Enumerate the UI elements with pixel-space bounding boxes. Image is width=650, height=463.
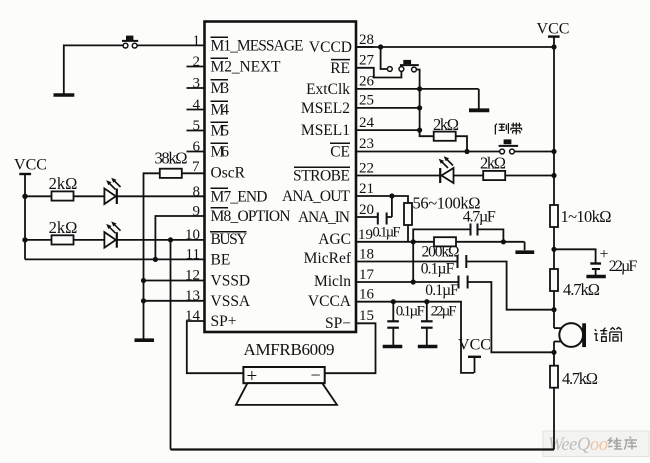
svg-text:2kΩ: 2kΩ (480, 154, 506, 173)
svg-text:SP−: SP− (325, 315, 351, 332)
pin label M8_OPTION (211, 208, 291, 225)
svg-text:23: 23 (359, 136, 374, 152)
svg-text:18: 18 (359, 247, 374, 263)
pin 7 number (192, 159, 200, 175)
svg-text:STROBE: STROBE (293, 168, 350, 185)
svg-text:VSSA: VSSA (211, 293, 251, 310)
pin label VSSD (211, 273, 251, 290)
node dot VSSD (141, 278, 146, 283)
node dot BUSY/down (168, 237, 173, 242)
wire row pin13 VSSA (144, 300, 205, 302)
node dot ANA_OUT/cap branch (389, 193, 394, 198)
svg-text:AGC: AGC (318, 231, 351, 248)
pin 8 number (193, 184, 201, 200)
wire pin26 ExtClk row (356, 88, 479, 90)
wire R9 down to mic top (553, 291, 555, 328)
svg-text:BE: BE (211, 252, 231, 269)
pin label M1_MESSAGE with overline on M1 (211, 37, 304, 54)
ground G1 (top-left) (54, 93, 75, 97)
wire row pin8 (M7_END) (25, 195, 205, 197)
resistor R6 56~100k vertical (404, 203, 412, 225)
wire R8 down to node (553, 227, 555, 269)
svg-text:0.1µF: 0.1µF (421, 261, 455, 278)
svg-text:27: 27 (359, 53, 375, 69)
svg-text:8: 8 (193, 184, 201, 200)
svg-text:VCC: VCC (537, 21, 570, 38)
node dot Micln/AGC (411, 279, 416, 284)
pin label M4 (211, 101, 230, 118)
wire pin20 ANA_IN to cap (356, 216, 378, 218)
pin label STROBE overlined (293, 167, 350, 184)
pin 22 number (359, 161, 374, 177)
node dot VCCA/C6 (424, 299, 429, 304)
pin label Micln (314, 273, 351, 290)
svg-text:19: 19 (358, 227, 373, 243)
pin 2 stub+number (187, 54, 205, 70)
wire vertical 38k left down to ground (144, 173, 160, 338)
pin label MSEL2 (301, 100, 350, 117)
svg-text:VCC: VCC (14, 157, 47, 174)
wire CE to VCC column (515, 151, 555, 153)
svg-text:−: − (311, 365, 321, 385)
resistor R8 1~10k vertical (VCC column) (550, 205, 558, 227)
svg-text:28: 28 (359, 32, 374, 48)
pin 26 number (359, 74, 375, 90)
pin 24 number (359, 115, 375, 131)
wire R10 down to bottom rail (553, 388, 555, 450)
svg-text:17: 17 (359, 267, 375, 283)
node dot VCCA/C5 (391, 299, 396, 304)
push button S2 (RE) (387, 60, 418, 72)
svg-text:1~10kΩ: 1~10kΩ (561, 207, 612, 226)
svg-text:22µF: 22µF (609, 258, 638, 275)
svg-text:4.7µF: 4.7µF (463, 209, 496, 226)
svg-text:1: 1 (193, 33, 201, 49)
pin 4 stub+number (187, 97, 205, 113)
wire pin17 Micln row (356, 281, 459, 283)
svg-text:15: 15 (359, 308, 374, 324)
wire pin25 MSEL2 row (356, 107, 420, 109)
ground G2 (bottom-left) (135, 338, 155, 342)
pin 16 number (359, 287, 375, 303)
pin 10 number (185, 227, 200, 243)
pin label BUSY overlined (210, 231, 248, 248)
svg-text:22: 22 (359, 161, 374, 177)
capacitor C7 22uF polarized to ground (586, 246, 608, 277)
svg-text:VCCA: VCCA (308, 293, 352, 310)
pin label M5 (211, 122, 230, 139)
node dot VSSA (141, 298, 146, 303)
svg-text:16: 16 (359, 287, 375, 303)
pin 1 stub+number (193, 33, 201, 49)
svg-text:BUSY: BUSY (211, 231, 248, 248)
wire button C down to ExtClk/MSEL column (416, 70, 433, 137)
node dot pin9/BE (153, 257, 158, 262)
pin label MSEL1 (301, 122, 350, 139)
wire AGC right to ground (524, 242, 526, 250)
pin label SP- (325, 315, 351, 332)
svg-text:25: 25 (359, 93, 374, 109)
svg-text:M1_MESSAGE: M1_MESSAGE (211, 38, 304, 55)
svg-text:ExtClk: ExtClk (306, 81, 350, 98)
svg-text:22µF: 22µF (431, 304, 457, 320)
resistor R3 38k (OscR) (160, 169, 182, 178)
resistor R10 4.7k (below mic) (550, 366, 558, 388)
svg-text:MSEL2: MSEL2 (301, 100, 350, 117)
svg-text:2: 2 (193, 54, 201, 70)
pin 15 number (359, 308, 374, 324)
wire LED to R5 (454, 175, 483, 177)
wire R4 right down to CE (456, 136, 467, 151)
wire pin27 RE step to button contact B (356, 68, 401, 78)
svg-text:200kΩ: 200kΩ (422, 244, 460, 261)
svg-text:2kΩ: 2kΩ (49, 218, 78, 237)
svg-text:0.1µF: 0.1µF (396, 304, 425, 320)
svg-text:VCC: VCC (458, 337, 491, 354)
svg-text:VSSD: VSSD (211, 273, 251, 290)
ground G4 (AGC) (515, 250, 534, 254)
pin label RE overlined (330, 60, 350, 77)
node dot AGC right (501, 239, 506, 244)
svg-text:24: 24 (359, 115, 375, 131)
pin 17 number (359, 267, 375, 283)
wire AGC down to Micln (412, 242, 414, 282)
node dot VCC/row8 (22, 194, 27, 199)
svg-text:SP+: SP+ (211, 313, 237, 330)
wire pin24 MSEL1 row (356, 129, 420, 131)
pin 5 stub+number (187, 118, 205, 134)
wire OscR to resistor (182, 172, 205, 174)
pin 11 number (186, 247, 200, 263)
node dot CE/VCC column (551, 149, 556, 154)
resistor R7 200k (AGC) (434, 237, 456, 246)
speaker LS1 (236, 365, 337, 405)
resistor R9 4.7k (above mic) (550, 269, 558, 291)
node dot Micln tap (551, 350, 556, 355)
wire C3 right to mic node (466, 262, 554, 310)
node dot AGC left (411, 239, 416, 244)
pin 9 number (193, 204, 201, 220)
node dot CE/R4 (464, 149, 469, 154)
capacitor C1 0.1uF (ANA_IN) (378, 196, 392, 225)
wire pin9 (M8_OPTION) down to BE (155, 216, 204, 259)
capacitor C2 4.7uF branch over R7 (413, 224, 503, 242)
pin 14 number (185, 308, 201, 324)
node dot pin28/VCC (551, 44, 556, 49)
wire SP- to speaker (325, 323, 376, 373)
pin label VSSA (211, 293, 251, 310)
LED D3 (STROBE) (439, 156, 454, 183)
push button S3 (rewind) (499, 139, 518, 154)
wire pin28 VCCD to VCC (356, 46, 554, 48)
push button S1 on pin1 wire (122, 36, 138, 48)
capacitor C6 22uF to ground (418, 302, 438, 347)
pin label CE overlined (330, 143, 350, 160)
svg-text:0.1µF: 0.1µF (373, 225, 401, 241)
svg-text:6: 6 (193, 139, 201, 155)
pin label M7_END (211, 188, 268, 205)
pin label BE (211, 252, 231, 269)
pin label M2_NEXT (211, 58, 282, 75)
svg-text:4: 4 (193, 97, 201, 113)
pin label AGC (318, 231, 351, 248)
svg-text:WeeQoo: WeeQoo (548, 435, 608, 455)
capacitor C4 0.1uF (Micln) (459, 276, 468, 289)
wire pin1 to button and ground (137, 44, 204, 46)
svg-text:Micln: Micln (314, 273, 351, 290)
svg-text:5: 5 (193, 118, 201, 134)
pin label SP+ (211, 313, 237, 330)
pin label ANA_OUT (282, 188, 351, 205)
pin 19 number (358, 227, 373, 243)
svg-text:26: 26 (359, 74, 375, 90)
wire mic bottom stub (553, 342, 555, 366)
wire pin23 CE row (356, 151, 500, 153)
pin 28 number (356, 32, 374, 48)
node dot MicRef tap (551, 307, 556, 312)
VCC symbol (VCCA) (458, 337, 491, 373)
pin 18 number (359, 247, 374, 263)
pin label ANA_IN (298, 209, 350, 226)
svg-text:M6: M6 (211, 144, 230, 161)
microphone MK1 (554, 323, 586, 347)
svg-text:2kΩ: 2kΩ (433, 115, 459, 134)
resistor R2 2k (row10) (52, 235, 74, 244)
capacitor C3 0.1uF (MicRef) (458, 255, 467, 268)
svg-text:VCCD: VCCD (309, 39, 352, 56)
pin label M3 (211, 80, 230, 97)
svg-text:MSEL1: MSEL1 (301, 122, 350, 139)
label rewind (dao dai) (495, 123, 522, 135)
svg-text:0.1µF: 0.1µF (425, 282, 459, 299)
resistor R1 2k (row8) (52, 191, 74, 200)
svg-text:M3: M3 (211, 80, 230, 97)
svg-text:4.7kΩ: 4.7kΩ (562, 369, 598, 388)
wire pin18 MicRef row (356, 261, 458, 263)
svg-text:2kΩ: 2kΩ (49, 174, 78, 193)
svg-text:38kΩ: 38kΩ (155, 149, 188, 168)
pin 27 number (359, 53, 375, 69)
wire BUSY down to bottom rail (170, 240, 172, 450)
svg-text:20: 20 (359, 202, 374, 218)
label mic (hua tong) (594, 327, 621, 342)
pin 20 number (359, 202, 374, 218)
svg-text:ANA_IN: ANA_IN (298, 209, 350, 226)
capacitor C5 0.1uF to ground (383, 302, 403, 347)
svg-text:+: + (600, 246, 609, 263)
resistor R5 2k (STROBE) (483, 171, 505, 180)
pin label M6 (211, 143, 230, 160)
svg-text:OscR: OscR (211, 165, 246, 182)
pin 6 stub+number (187, 139, 205, 155)
svg-text:M5: M5 (211, 123, 230, 140)
svg-text:M2_NEXT: M2_NEXT (211, 59, 282, 76)
node dot pin28/button (378, 44, 383, 49)
wire ExtClk down to ground (478, 89, 480, 109)
bottom rail wire (171, 448, 555, 450)
svg-text:3: 3 (193, 76, 201, 92)
wire row pin11 (BE) (25, 258, 205, 260)
VCC symbol top right (537, 21, 570, 206)
wire row pin10 (BUSY) (25, 239, 205, 241)
LED D2 (row10) (104, 221, 120, 247)
svg-text:AMFRB6009: AMFRB6009 (244, 340, 335, 359)
wire R6 down to AGC (407, 225, 409, 242)
wire pin28 drop to button contact A (381, 47, 388, 69)
svg-text:CE: CE (330, 144, 350, 161)
wire SP+ to speaker (187, 321, 244, 373)
svg-text:M8_OPTION: M8_OPTION (211, 208, 291, 225)
pin label VCCD (309, 39, 352, 56)
wire R7 to right node (456, 241, 525, 243)
node dot pin25/column (417, 105, 422, 110)
wire pin22 STROBE row (356, 175, 440, 177)
pin 13 number (185, 288, 200, 304)
wire C4 right to below-mic node (468, 282, 554, 352)
wire to capacitor C7 22uF (554, 249, 596, 262)
node dot pin24/column (417, 128, 422, 133)
wire R5 to VCC column (506, 175, 554, 177)
node dot pin26/column (417, 86, 422, 91)
pin 12 number (185, 268, 200, 284)
resistor R4 2k (MSEL column) (434, 132, 456, 141)
pin label MicRef (304, 250, 352, 267)
wire pin16 VCCA row (356, 302, 474, 373)
wire row pin12 VSSD (144, 280, 205, 282)
node dot VCC/row10 (22, 237, 27, 242)
IC U1 AMFRB6009 body (205, 22, 357, 333)
svg-text:21: 21 (359, 181, 374, 197)
pin 21 number (359, 181, 374, 197)
svg-text:4.7kΩ: 4.7kΩ (563, 280, 600, 299)
svg-text:MicRef: MicRef (304, 250, 352, 267)
svg-text:ANA_OUT: ANA_OUT (282, 188, 351, 205)
watermark box (543, 431, 649, 457)
svg-text:RE: RE (330, 60, 350, 77)
pin 3 stub+number (187, 76, 205, 92)
pin label VCCA (308, 293, 352, 310)
wire pin19 AGC row (356, 241, 435, 243)
node dot STROBE/VCC column (551, 173, 556, 178)
pin label ExtClk (306, 81, 350, 98)
wire pin21 ANA_OUT row (356, 196, 408, 204)
pin 25 number (359, 93, 374, 109)
VCC symbol left (14, 157, 47, 260)
pin label OscR (211, 165, 246, 182)
LED D1 (row8) (104, 178, 120, 204)
ground G3 (ExtClk) (469, 108, 489, 112)
svg-text:9: 9 (193, 204, 201, 220)
svg-text:M7_END: M7_END (211, 189, 268, 206)
pin 23 number (359, 136, 374, 152)
node dot 22uF tap (551, 247, 556, 252)
svg-text:M4: M4 (211, 102, 230, 119)
